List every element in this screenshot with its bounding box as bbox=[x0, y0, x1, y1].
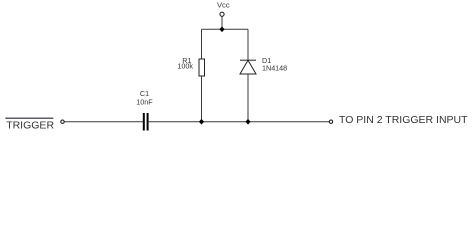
svg-text:1N4148: 1N4148 bbox=[262, 64, 287, 73]
svg-text:Vcc: Vcc bbox=[217, 0, 230, 9]
svg-text:100k: 100k bbox=[177, 62, 193, 71]
svg-text:TRIGGER: TRIGGER bbox=[6, 120, 54, 132]
svg-text:TO PIN 2 TRIGGER INPUT: TO PIN 2 TRIGGER INPUT bbox=[339, 114, 468, 126]
svg-text:10nF: 10nF bbox=[136, 97, 153, 106]
